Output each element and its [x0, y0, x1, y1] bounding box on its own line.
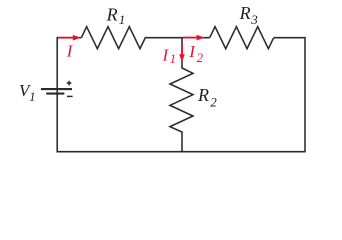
svg-text:1: 1 — [170, 52, 176, 66]
svg-text:3: 3 — [250, 12, 258, 27]
svg-text:I: I — [162, 46, 170, 65]
svg-text:1: 1 — [119, 12, 126, 27]
svg-text:R: R — [239, 3, 251, 23]
svg-text:I: I — [188, 42, 196, 61]
svg-text:R: R — [106, 5, 118, 25]
svg-text:I: I — [66, 42, 74, 61]
svg-text:2: 2 — [197, 51, 203, 65]
svg-text:R: R — [197, 85, 209, 105]
svg-text:2: 2 — [210, 94, 217, 109]
svg-text:1: 1 — [29, 90, 35, 104]
